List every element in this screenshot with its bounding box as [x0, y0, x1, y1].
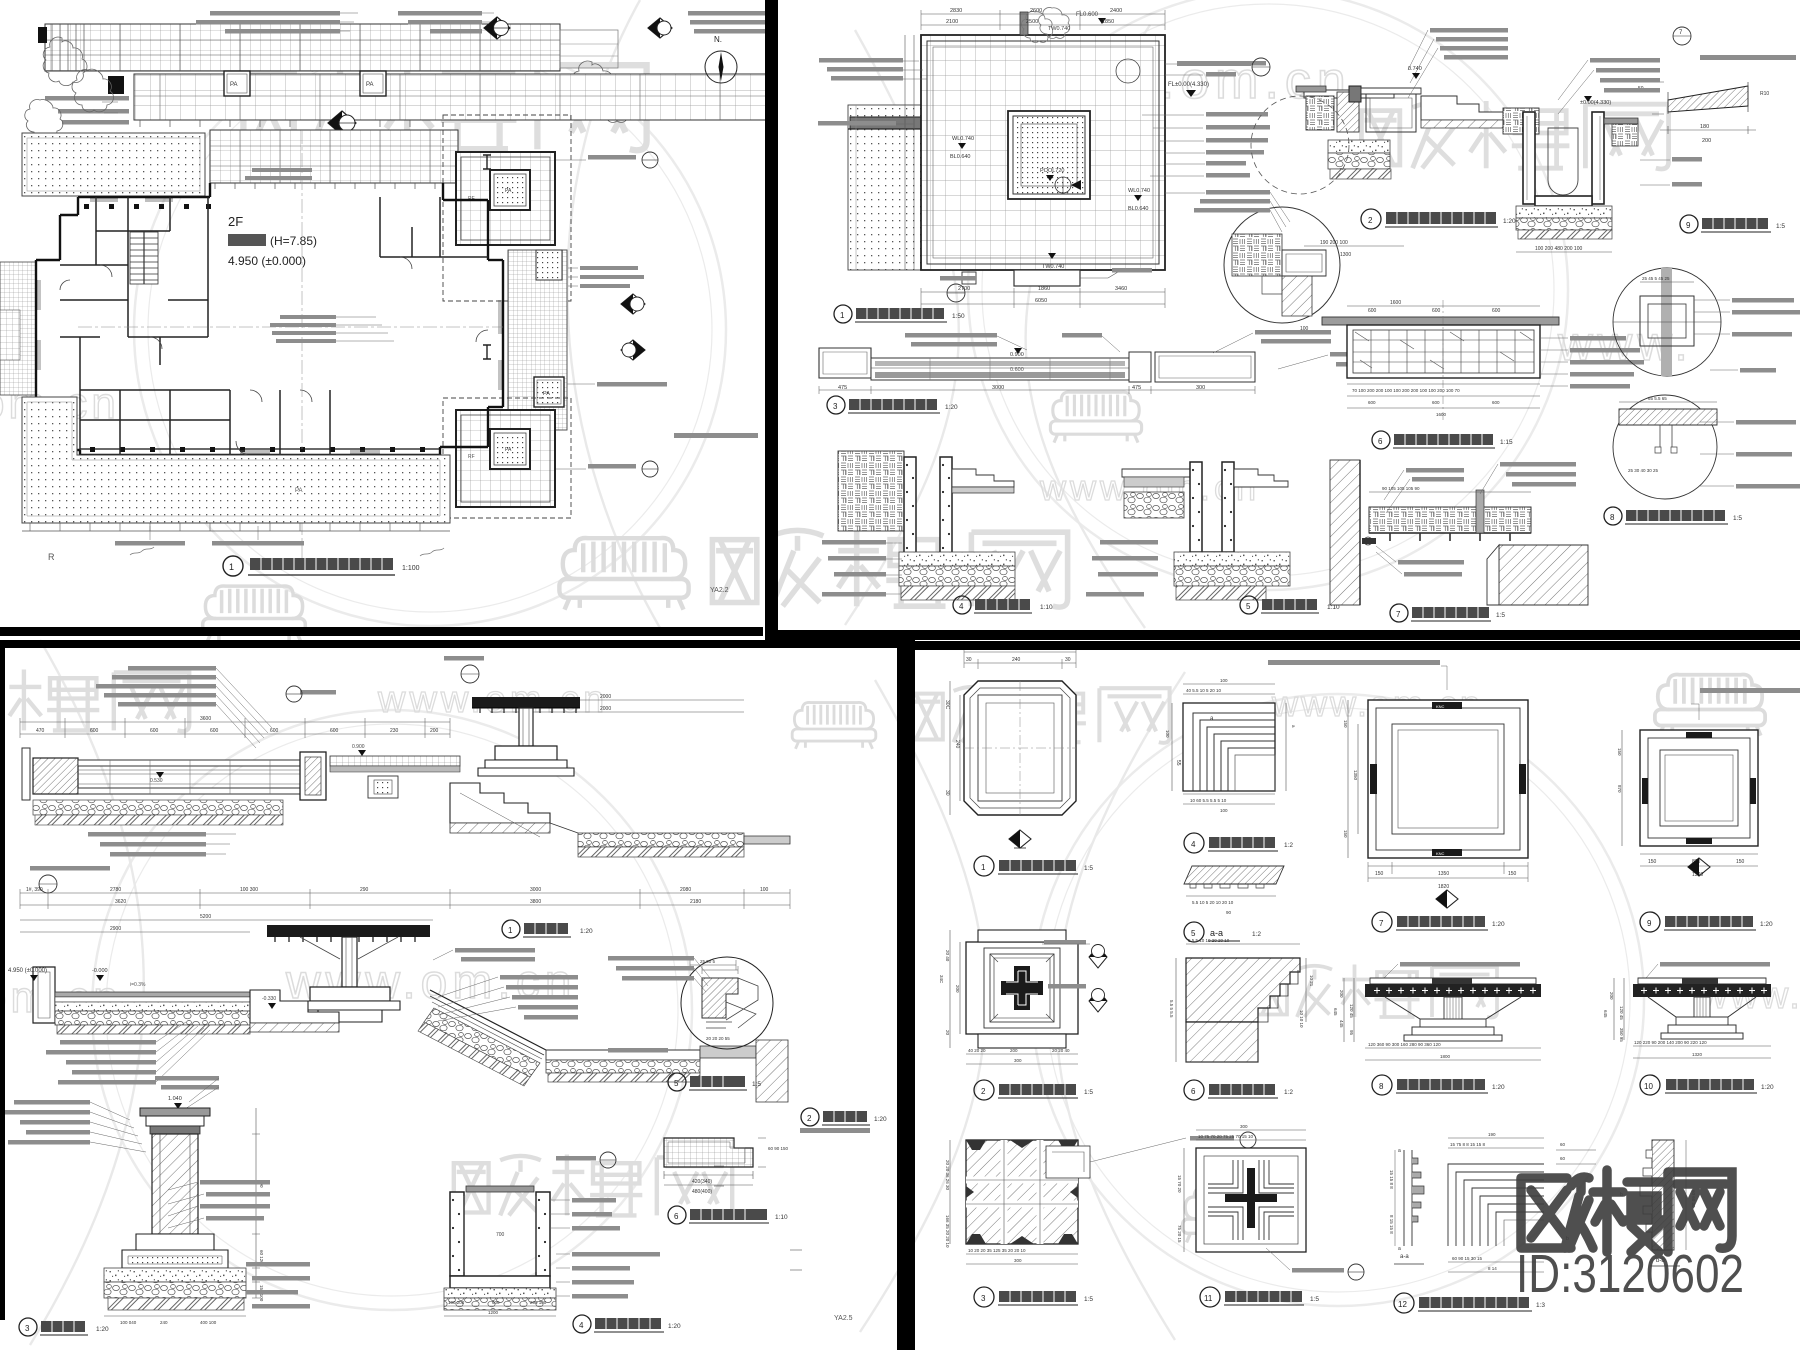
svg-text:180: 180: [1700, 124, 1709, 130]
svg-text:1:2: 1:2: [1284, 842, 1293, 849]
svg-text:25 45 5 45 25: 25 45 5 45 25: [1642, 276, 1670, 281]
west terrace grid strips: [0, 262, 36, 395]
svg-text:10 75 70 20 75 25 70 15 1: 10 75 70 20 75 25 70 15 10: [1198, 1134, 1254, 1139]
svg-text:1:2: 1:2: [1284, 1089, 1293, 1096]
svg-text:200: 200: [1339, 990, 1344, 998]
sheet D top bar: [915, 641, 1800, 650]
title 12: [1394, 1293, 1414, 1313]
svg-text:600: 600: [492, 1300, 500, 1305]
water feature square bottom: [456, 410, 555, 507]
svg-text:420(340): 420(340): [692, 1179, 712, 1185]
svg-text:YA2.2: YA2.2: [710, 587, 729, 594]
right gravel run: [578, 833, 744, 847]
water plan ref circles right: [556, 152, 658, 477]
svg-text:470: 470: [36, 728, 45, 734]
title 3: [974, 1287, 994, 1307]
foundation steps: [136, 1234, 214, 1250]
svg-text:15 15 8 8: 15 15 8 8: [1389, 1170, 1394, 1189]
svg-text:600: 600: [150, 728, 159, 734]
misc notes: [800, 1128, 870, 1133]
svg-text:1820: 1820: [1438, 884, 1449, 890]
svg-text:1600: 1600: [1436, 412, 1447, 417]
svg-text:4: 4: [959, 602, 964, 611]
dims below: [104, 1315, 246, 1317]
leaders left: [608, 956, 694, 981]
svg-text:20 20 20 55: 20 20 20 55: [706, 1036, 730, 1041]
dashed enclosure bottom water sq: [443, 398, 571, 518]
hollow text watermarks: [0, 52, 1800, 1022]
paving band 2: [134, 74, 770, 120]
svg-text:190: 190: [1488, 1132, 1496, 1137]
svg-text:2080: 2080: [680, 887, 691, 893]
ref bubble: [1292, 1268, 1344, 1273]
svg-text:30C: 30C: [944, 700, 950, 710]
svg-text:1:20: 1:20: [1760, 921, 1773, 928]
svg-text:300: 300: [1014, 1058, 1022, 1063]
dims: [1347, 305, 1540, 307]
right vertical grid strip: [508, 250, 567, 430]
dims left: [1175, 958, 1177, 1062]
svg-text:10 20 20 35 125 35 20 20 1: 10 20 20 35 125 35 20 20 10: [968, 1248, 1026, 1253]
svg-text:200: 200: [430, 728, 439, 734]
ref circle 花钵详见: [444, 656, 484, 661]
title 7: [1372, 912, 1392, 932]
dims below: [1368, 866, 1528, 878]
dims below: [1633, 1046, 1771, 1058]
svg-text:1:15: 1:15: [1500, 439, 1513, 446]
svg-text:200: 200: [1609, 992, 1614, 1000]
svg-text:2: 2: [807, 1114, 812, 1123]
steps to right: [1421, 96, 1503, 120]
svg-text:1: 1: [840, 311, 845, 320]
svg-text:20 40: 20 40: [945, 950, 950, 962]
column top cap: [140, 1108, 210, 1116]
svg-text:1350: 1350: [1438, 871, 1449, 877]
building outer wall: [36, 183, 503, 455]
mirror pool plan: [818, 7, 1800, 622]
svg-text:600: 600: [1492, 400, 1500, 405]
right diamond markers mid: [621, 294, 645, 360]
leader cluster top-left: [96, 666, 216, 707]
svg-text:0.900: 0.900: [352, 744, 365, 750]
small note right: [674, 433, 758, 438]
池底石材基座做法详图 ref + circle7: [1176, 60, 1178, 62]
svg-text:2500: 2500: [1026, 19, 1038, 25]
svg-text:1320: 1320: [1692, 1052, 1703, 1057]
svg-text:4.950 (±0.000): 4.950 (±0.000): [228, 254, 306, 268]
svg-text:KNC: KNC: [1436, 704, 1445, 709]
svg-text:600: 600: [1432, 400, 1440, 405]
svg-text:300: 300: [1240, 1124, 1248, 1129]
svg-text:R: R: [48, 552, 55, 562]
diamond: [1436, 890, 1458, 908]
模: [1593, 1170, 1623, 1252]
base make-up ref bubble: [30, 866, 110, 871]
sheet B bottom bar: [765, 630, 1800, 640]
svg-text:645: 645: [1603, 1010, 1608, 1018]
svg-text:400 100: 400 100: [200, 1320, 217, 1325]
omw glyph watermarks: [243, 61, 646, 150]
svg-text:±0.00(4.330): ±0.00(4.330): [1580, 100, 1611, 106]
water feature square top: [456, 152, 555, 245]
svg-text:290: 290: [360, 887, 369, 893]
diamond below: [1009, 830, 1031, 848]
svg-text:190 200 100: 190 200 100: [1320, 240, 1348, 246]
svg-text:200: 200: [1010, 1048, 1018, 1053]
svg-text:200 100: 200 100: [530, 1300, 547, 1305]
labels right of fountain: [455, 948, 578, 1020]
svg-text:150: 150: [1508, 871, 1517, 877]
fountain: [472, 697, 580, 776]
svg-text:2000: 2000: [600, 706, 611, 712]
svg-text:a: a: [1398, 1246, 1401, 1252]
svg-text:1:20: 1:20: [1761, 1084, 1774, 1091]
dims below: [444, 1306, 556, 1316]
svg-text:PA: PA: [230, 82, 238, 88]
dims above: [1183, 684, 1275, 694]
right leaders: [1570, 336, 1644, 389]
top protrusion + tree: [1020, 12, 1028, 35]
title 11: [1200, 1287, 1220, 1307]
svg-text:2900: 2900: [110, 926, 121, 932]
right slope descending: [418, 990, 788, 1102]
svg-text:1300: 1300: [1340, 252, 1351, 258]
top leader labels: [1430, 28, 1660, 93]
svg-text:300: 300: [1196, 385, 1205, 391]
ref diamonds right: [1042, 940, 1107, 1012]
dims above: [20, 931, 250, 933]
svg-text:2000: 2000: [600, 694, 611, 700]
svg-text:240: 240: [954, 740, 960, 749]
svg-text:100 200 480 200 100: 100 200 480 200 100: [1535, 246, 1582, 252]
svg-text:1:20: 1:20: [1492, 921, 1505, 928]
svg-text:70 100 200 200 100 100 20: 70 100 200 200 100 100 200 200 100 100 2…: [1352, 388, 1460, 393]
bottom labels: [115, 541, 304, 546]
internal walls: [60, 197, 488, 455]
sheet C top bar: [0, 640, 913, 648]
svg-text:65 5.5 65: 65 5.5 65: [1648, 396, 1667, 401]
svg-text:PA: PA: [505, 447, 512, 453]
pump pit right: [1516, 112, 1612, 239]
dark wall center: [1349, 86, 1361, 102]
PA box in strip: [534, 377, 564, 407]
svg-text:WL0.740: WL0.740: [1128, 188, 1150, 194]
title 6: [1184, 1080, 1204, 1100]
svg-text:2780: 2780: [110, 887, 121, 893]
svg-text:PA: PA: [543, 391, 550, 397]
svg-text:R10: R10: [1760, 91, 1769, 97]
drain circle: [1116, 59, 1140, 83]
main trough: [22, 748, 30, 800]
svg-text:1: 1: [981, 863, 986, 872]
svg-text:2600: 2600: [1030, 8, 1042, 14]
title 4: [573, 1315, 591, 1333]
svg-text:150: 150: [1648, 859, 1657, 865]
svg-text:4: 4: [1191, 840, 1196, 849]
svg-text:i=0.3%: i=0.3%: [130, 982, 146, 988]
svg-text:10 60 5.5 5.5 5 10: 10 60 5.5 5.5 5 10: [1190, 798, 1227, 803]
洗磨石材基座做法详图 ref top right: [1673, 27, 1796, 60]
svg-text:6: 6: [1191, 1087, 1196, 1096]
corner decorations: [966, 1140, 1078, 1244]
dims above pool: [921, 14, 1165, 25]
svg-text:1350: 1350: [1353, 770, 1358, 781]
svg-text:1600: 1600: [1390, 300, 1401, 306]
svg-text:34C: 34C: [939, 975, 944, 984]
C/D divider vertical bar: [897, 640, 915, 1350]
tree right: [572, 61, 618, 108]
svg-text:75 20 15: 75 20 15: [1177, 1225, 1182, 1243]
svg-text:200: 200: [1702, 138, 1711, 144]
svg-text:8: 8: [1610, 513, 1615, 522]
title 2: [801, 1108, 819, 1126]
svg-text:600: 600: [1368, 400, 1376, 405]
ref circle 装饰柱: [300, 690, 336, 695]
svg-text:PA: PA: [366, 82, 374, 88]
svg-text:3: 3: [25, 1324, 30, 1333]
svg-text:-0.330: -0.330: [262, 996, 276, 1002]
svg-text:100: 100: [760, 887, 769, 893]
sofas: [559, 538, 688, 610]
right leader labels: [1142, 61, 1270, 195]
svg-text:700: 700: [496, 1232, 505, 1238]
svg-text:60: 60: [1560, 1156, 1566, 1161]
dims left: [1183, 1148, 1185, 1252]
svg-text:20 20 36 26 30: 20 20 36 26 30: [945, 1160, 950, 1191]
left dims: [1614, 978, 1624, 1040]
svg-text:7: 7: [1379, 919, 1384, 928]
svg-text:2400: 2400: [1110, 8, 1122, 14]
dims left: [950, 930, 960, 1048]
svg-text:1:10: 1:10: [775, 1214, 788, 1221]
svg-text:5.5 10 5 20 10 20 10: 5.5 10 5 20 10 20 10: [1192, 900, 1234, 905]
pump pit protrusion bottom: [1014, 270, 1080, 286]
svg-text:40 5.5 10 5 20 10: 40 5.5 10 5 20 10: [1186, 688, 1222, 693]
svg-text:1: 1: [229, 562, 234, 572]
svg-text:10 21: 10 21: [1309, 975, 1314, 987]
svg-text:25 30 40 30 25: 25 30 40 30 25: [1628, 468, 1659, 473]
svg-text:8 15 15 8: 8 15 15 8: [1389, 1215, 1394, 1234]
window double lines on walls: [38, 199, 501, 453]
diamond: [1688, 858, 1710, 876]
svg-text:60 90 150: 60 90 150: [768, 1146, 789, 1151]
labels mid plan pointing to paving: [245, 168, 312, 180]
door arcs: [60, 257, 488, 455]
dim right: [255, 1108, 257, 1298]
dims: [1369, 491, 1531, 493]
svg-text:300: 300: [1014, 1258, 1022, 1263]
title 2: [1361, 209, 1381, 229]
right b-b profile: [1652, 1140, 1674, 1250]
dims left/right: [1172, 703, 1286, 791]
right paving + soil: [1604, 118, 1638, 124]
svg-text:0.600: 0.600: [1010, 367, 1024, 373]
label cluster 1: [45, 11, 766, 125]
dims left: [950, 681, 960, 815]
svg-text:9: 9: [1686, 221, 1691, 230]
left planting strip: [848, 105, 921, 270]
svg-text:150: 150: [1343, 720, 1348, 728]
svg-text:1860: 1860: [1038, 286, 1050, 292]
labels below: [1398, 560, 1464, 577]
stair: [130, 232, 158, 284]
left dims: [1344, 978, 1354, 1042]
svg-text:150: 150: [1617, 748, 1622, 756]
title 7: [1390, 604, 1408, 622]
svg-text:(H=7.85): (H=7.85): [270, 234, 317, 248]
svg-text:3600: 3600: [200, 716, 211, 722]
svg-text:5: 5: [1191, 929, 1196, 938]
basket block: [1306, 96, 1334, 130]
svg-text:7: 7: [1396, 610, 1401, 619]
dims top: [1448, 1138, 1544, 1148]
sheet A bottom bar: [0, 627, 763, 636]
title 1: [502, 920, 520, 938]
svg-text:1200: 1200: [488, 1310, 499, 1315]
svg-text:120 360 90 300 160 280: 120 360 90 300 160 280 90 360 120: [1368, 1042, 1441, 1047]
svg-text:0.530: 0.530: [150, 778, 163, 784]
svg-text:FL0.600: FL0.600: [1076, 12, 1099, 18]
svg-text:1:20: 1:20: [580, 928, 593, 935]
dims below: [1304, 246, 1612, 252]
svg-text:1:5: 1:5: [1733, 515, 1742, 522]
svg-text:1:5: 1:5: [1084, 1296, 1093, 1303]
dims left: [1621, 730, 1623, 846]
black corner mark: [108, 76, 124, 94]
svg-text:1:5: 1:5: [1496, 612, 1505, 619]
middle meander detail: [1448, 1164, 1544, 1246]
gravel + concrete base left: [1328, 140, 1390, 153]
svg-text:BL0.640: BL0.640: [1128, 206, 1149, 212]
compass diamond in pool: [1055, 177, 1071, 193]
svg-text:3800: 3800: [530, 899, 541, 905]
end block: [300, 752, 326, 800]
steps right of wall: [952, 469, 1014, 487]
svg-text:1:5: 1:5: [1776, 223, 1785, 230]
svg-text:600: 600: [270, 728, 279, 734]
svg-text:6050: 6050: [1035, 298, 1047, 304]
dims below: [20, 893, 790, 905]
svg-text:1:20: 1:20: [1503, 218, 1516, 225]
dashed detail circle left: [1251, 96, 1349, 194]
池底石材基座做法详图 ref (pool top): [1168, 58, 1270, 97]
svg-text:10: 10: [1644, 1082, 1653, 1091]
svg-text:15 75 8 8 15 15 8: 15 75 8 8 15 15 8: [1450, 1142, 1486, 1147]
title 8: [1604, 507, 1622, 525]
svg-text:166 35 20 20 10: 166 35 20 20 10: [945, 1215, 950, 1248]
title: [223, 556, 420, 576]
svg-text:a: a: [1398, 1148, 1401, 1154]
svg-text:2830: 2830: [950, 8, 962, 14]
left a-a profile: [1404, 1150, 1412, 1246]
svg-text:2180: 2180: [690, 899, 701, 905]
trees top-left: [43, 37, 87, 86]
svg-text:475: 475: [838, 385, 847, 391]
svg-text:5: 5: [1246, 602, 1251, 611]
labels mid: [200, 1180, 270, 1221]
svg-text:1#, 390: 1#, 390: [26, 887, 43, 893]
labels: [1086, 540, 1158, 597]
title 4: [953, 596, 971, 614]
svg-text:600: 600: [330, 728, 339, 734]
svg-text:1:10: 1:10: [1040, 604, 1053, 611]
svg-text:100: 100: [1220, 808, 1228, 813]
svg-text:0.740: 0.740: [1408, 66, 1422, 72]
svg-text:60 90 15 30 15: 60 90 15 30 15: [1452, 1256, 1483, 1261]
svg-text:600: 600: [210, 728, 219, 734]
title 1: [834, 305, 965, 323]
svg-text:55: 55: [1175, 760, 1181, 766]
label cluster right of building: [270, 315, 336, 343]
svg-text:WL0.740: WL0.740: [952, 136, 974, 142]
PA boxes in band: [224, 71, 386, 96]
base layers: [899, 552, 1015, 566]
svg-text:5.5 5 5.5: 5.5 5 5.5: [1169, 1000, 1174, 1018]
svg-text:5: 5: [674, 1079, 679, 1088]
svg-text:5200: 5200: [200, 914, 211, 920]
left label cluster: [46, 1040, 156, 1085]
inner tree pit: [1008, 111, 1090, 199]
svg-text:a-a: a-a: [1400, 1254, 1409, 1260]
svg-text:3000: 3000: [992, 385, 1004, 391]
svg-text:120 45: 120 45: [1619, 1006, 1624, 1020]
dims below: [1365, 1048, 1541, 1060]
svg-text:30: 30: [966, 657, 972, 663]
title 5: [1184, 922, 1204, 942]
svg-text:100 040: 100 040: [120, 1320, 137, 1325]
svg-text:1:20: 1:20: [96, 1326, 109, 1333]
title 9: [1640, 912, 1660, 932]
meander cross: [990, 954, 1054, 1022]
svg-text:200: 200: [955, 985, 960, 993]
svg-text:4: 4: [579, 1321, 584, 1330]
svg-text:40 20 20: 40 20 20: [968, 1048, 986, 1053]
section mark I: [483, 155, 491, 169]
north compass: [705, 35, 737, 83]
欧: [1521, 1178, 1571, 1248]
svg-text:5.5 5 10 10 20 20 10: 5.5 5 10 10 20 20 10: [1188, 938, 1230, 943]
svg-text:2: 2: [1368, 216, 1373, 225]
title 8: [1372, 1075, 1392, 1095]
svg-text:a-a: a-a: [1210, 928, 1223, 938]
svg-text:645: 645: [1333, 1008, 1338, 1016]
svg-text:PA: PA: [295, 488, 303, 494]
svg-text:150: 150: [1343, 830, 1348, 838]
svg-text:100: 100: [1165, 730, 1170, 738]
svg-text:0.900: 0.900: [1010, 352, 1024, 358]
svg-text:12: 12: [1398, 1300, 1407, 1309]
stipple planting top-left: [22, 133, 205, 196]
svg-text:BL0.640: BL0.640: [950, 154, 971, 160]
svg-text:1:50: 1:50: [952, 313, 965, 320]
dims below pool: [921, 292, 1165, 304]
svg-text:6: 6: [1378, 437, 1383, 446]
title 10: [1640, 1075, 1660, 1095]
title 6: [668, 1206, 686, 1224]
svg-text:1: 1: [508, 926, 513, 935]
svg-text:1850: 1850: [1102, 19, 1114, 25]
svg-text:600: 600: [1432, 308, 1441, 314]
svg-text:1:20: 1:20: [874, 1116, 887, 1123]
base layers under trough: [33, 800, 283, 815]
svg-text:PA: PA: [505, 188, 512, 194]
steps down right of fountain: [450, 783, 550, 823]
svg-text:150: 150: [1375, 871, 1384, 877]
labels above: [1406, 462, 1576, 487]
sheet B left bar: [765, 0, 778, 640]
svg-text:2F: 2F: [228, 214, 243, 229]
dims above: [1186, 943, 1300, 945]
